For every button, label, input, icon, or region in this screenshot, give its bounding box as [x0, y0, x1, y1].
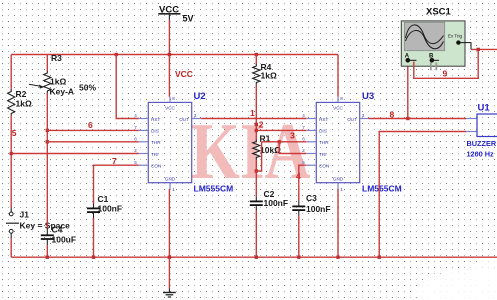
svg-text:RST: RST [151, 117, 160, 122]
wire U3 GND to rail [337, 189, 339, 257]
wire U3 CON to C3 [299, 165, 307, 200]
svg-text:8: 8 [340, 96, 343, 101]
capacitor C3 [292, 193, 330, 215]
power VCC symbol 5V [158, 5, 193, 24]
svg-text:THR: THR [151, 140, 161, 145]
capacitor C4 [41, 225, 76, 246]
junction rail C2 [255, 256, 258, 259]
svg-text:C4: C4 [52, 225, 63, 235]
svg-text:100nF: 100nF [306, 204, 331, 214]
svg-text:VCC: VCC [175, 69, 193, 79]
svg-text:9: 9 [443, 69, 448, 79]
junction net 8 scope tap [406, 117, 409, 120]
svg-text:3: 3 [290, 131, 295, 141]
wire C2 to rail [255, 210, 257, 257]
wire U2 THR [47, 141, 139, 143]
wire U3 VCC drop [337, 55, 339, 97]
svg-text:OUT: OUT [347, 117, 357, 122]
junction net 6 [46, 129, 49, 132]
svg-text:VCC: VCC [333, 106, 343, 111]
wire rail to R3 [46, 55, 48, 72]
wire net 8 U3 OUT to buzzer [369, 118, 466, 120]
svg-text:CON: CON [151, 164, 161, 169]
resistor R1 [253, 140, 260, 160]
wire scope A to net 8 [407, 63, 409, 119]
svg-text:4: 4 [134, 113, 137, 118]
wire top VCC rail [11, 54, 338, 56]
R3 wiper arrow [29, 84, 39, 86]
svg-text:XSC1: XSC1 [426, 7, 452, 18]
svg-text:8: 8 [172, 96, 175, 101]
junction rail C1 [92, 256, 95, 259]
wire R1 bottom [255, 160, 257, 172]
junction net 3 [278, 140, 281, 143]
wire U2 CON to C1 [94, 165, 139, 203]
junction top rail at R4 [255, 53, 258, 56]
svg-text:6: 6 [134, 136, 137, 141]
svg-text:CON: CON [319, 164, 329, 169]
wire J1 to ground rail [10, 238, 12, 257]
junction top rail at VCC [168, 53, 171, 56]
svg-text:1: 1 [172, 187, 175, 192]
svg-text:B: B [429, 54, 434, 60]
svg-text:GND: GND [165, 176, 176, 181]
svg-text:5: 5 [134, 160, 137, 165]
svg-text:Key-A: Key-A [50, 87, 75, 97]
svg-text:DIS: DIS [319, 129, 327, 134]
capacitor C1 [87, 194, 122, 218]
wire to C2 [255, 171, 257, 197]
svg-text:2: 2 [302, 148, 305, 153]
svg-text:J1: J1 [20, 210, 30, 220]
junction net 9 [477, 48, 480, 51]
wire U3 DIS [256, 129, 306, 131]
svg-text:BUZZER: BUZZER [467, 139, 497, 148]
svg-text:4: 4 [302, 113, 305, 118]
junction rail U3 GND [336, 256, 339, 259]
junction net 2 DIS tee [255, 129, 258, 132]
svg-text:6: 6 [88, 120, 93, 130]
wire net 3 to U3 THR [262, 141, 307, 143]
svg-text:U3: U3 [362, 91, 374, 102]
junction R1 bottom C2 [255, 169, 258, 172]
wire net 1 U2 OUT to U3 RST [201, 118, 306, 120]
svg-text:1200 Hz: 1200 Hz [467, 149, 495, 158]
svg-text:5: 5 [12, 128, 17, 138]
svg-text:GND: GND [333, 176, 344, 181]
svg-text:7: 7 [302, 125, 305, 130]
wire U2 RST pull-up [116, 55, 139, 119]
decorative white fade bottom right [415, 270, 497, 300]
svg-text:C3: C3 [306, 193, 317, 203]
svg-text:Key = Space: Key = Space [20, 220, 71, 230]
svg-text:U1: U1 [478, 103, 491, 114]
svg-text:LM555CM: LM555CM [362, 183, 402, 193]
svg-text:Ex Trig: Ex Trig [448, 34, 463, 39]
svg-text:KIA: KIA [191, 106, 311, 196]
svg-text:TRI: TRI [319, 152, 326, 157]
junction top rail at RST pull-up [115, 53, 118, 56]
svg-text:TRI: TRI [151, 152, 158, 157]
svg-text:RST: RST [319, 117, 328, 122]
svg-text:100nF: 100nF [264, 198, 289, 208]
svg-text:5V: 5V [183, 14, 194, 24]
junction rail C4 [46, 256, 49, 259]
junction U2 THR net [46, 140, 49, 143]
wire left rail upper [10, 55, 12, 90]
svg-text:1: 1 [250, 108, 255, 118]
timer U2 LM555CM [134, 96, 201, 192]
svg-text:6: 6 [302, 136, 305, 141]
wire rail to R4 [255, 55, 257, 65]
wire net 9 loop to scope [414, 49, 478, 78]
wire buzzer return [379, 132, 466, 258]
svg-text:1kΩ: 1kΩ [261, 71, 277, 81]
wire net 3 to U3 TRI [279, 142, 306, 154]
svg-text:10kΩ: 10kΩ [260, 145, 281, 155]
wire C3 to rail [298, 215, 300, 257]
junction rail buzzer return [378, 256, 381, 259]
svg-text:R2: R2 [16, 89, 27, 99]
svg-text:5: 5 [302, 160, 305, 165]
svg-text:3: 3 [194, 113, 197, 118]
svg-text:2: 2 [134, 148, 137, 153]
svg-text:VCC: VCC [165, 106, 175, 111]
svg-text:R3: R3 [51, 53, 62, 63]
capacitor C2 [250, 189, 288, 210]
svg-text:C1: C1 [98, 194, 109, 204]
ground symbol [163, 257, 176, 297]
junction net 2 upper [255, 123, 258, 126]
svg-text:7: 7 [134, 125, 137, 130]
wire ground rail [11, 256, 497, 258]
svg-text:100uF: 100uF [52, 235, 77, 245]
svg-text:THR: THR [319, 140, 329, 145]
wire U2 TRI [11, 153, 139, 155]
timer U3 LM555CM [302, 96, 369, 192]
svg-text:100nF: 100nF [98, 204, 123, 214]
wire VCC symbol to rail to U2 pin 8 [168, 20, 170, 97]
junction rail C3 [297, 256, 300, 259]
svg-text:DIS: DIS [151, 129, 159, 134]
buzzer U1 [466, 103, 497, 159]
svg-text:1kΩ: 1kΩ [16, 99, 32, 109]
svg-text:3: 3 [362, 113, 365, 118]
svg-text:2: 2 [259, 120, 264, 130]
svg-text:LM555CM: LM555CM [194, 183, 234, 193]
wire R1 bottom up to net 3 [256, 142, 261, 171]
resistor R4 [253, 64, 260, 85]
junction rail U2 GND [168, 256, 171, 259]
svg-text:OUT: OUT [179, 117, 189, 122]
wire net 9 to right edge [471, 48, 497, 50]
wire C1 to rail [93, 218, 95, 257]
resistor R2 [8, 90, 15, 116]
svg-text:U2: U2 [194, 91, 206, 102]
switch J1 [6, 208, 70, 239]
wire left rail to J1 [10, 116, 12, 208]
svg-text:A: A [405, 54, 410, 60]
wire C4 to rail [46, 245, 48, 257]
svg-text:1kΩ: 1kΩ [50, 77, 66, 87]
junction net 5 TRI [10, 152, 13, 155]
potentiometer R3 [44, 71, 51, 93]
wire U2 GND to rail [168, 189, 170, 257]
wire pot bottom column [46, 93, 48, 228]
svg-text:1: 1 [340, 187, 343, 192]
wire R4 to R1 [255, 85, 257, 140]
oscilloscope XSC1 [401, 7, 471, 71]
svg-text:50%: 50% [79, 83, 96, 93]
wire U2 DIS [47, 129, 139, 131]
